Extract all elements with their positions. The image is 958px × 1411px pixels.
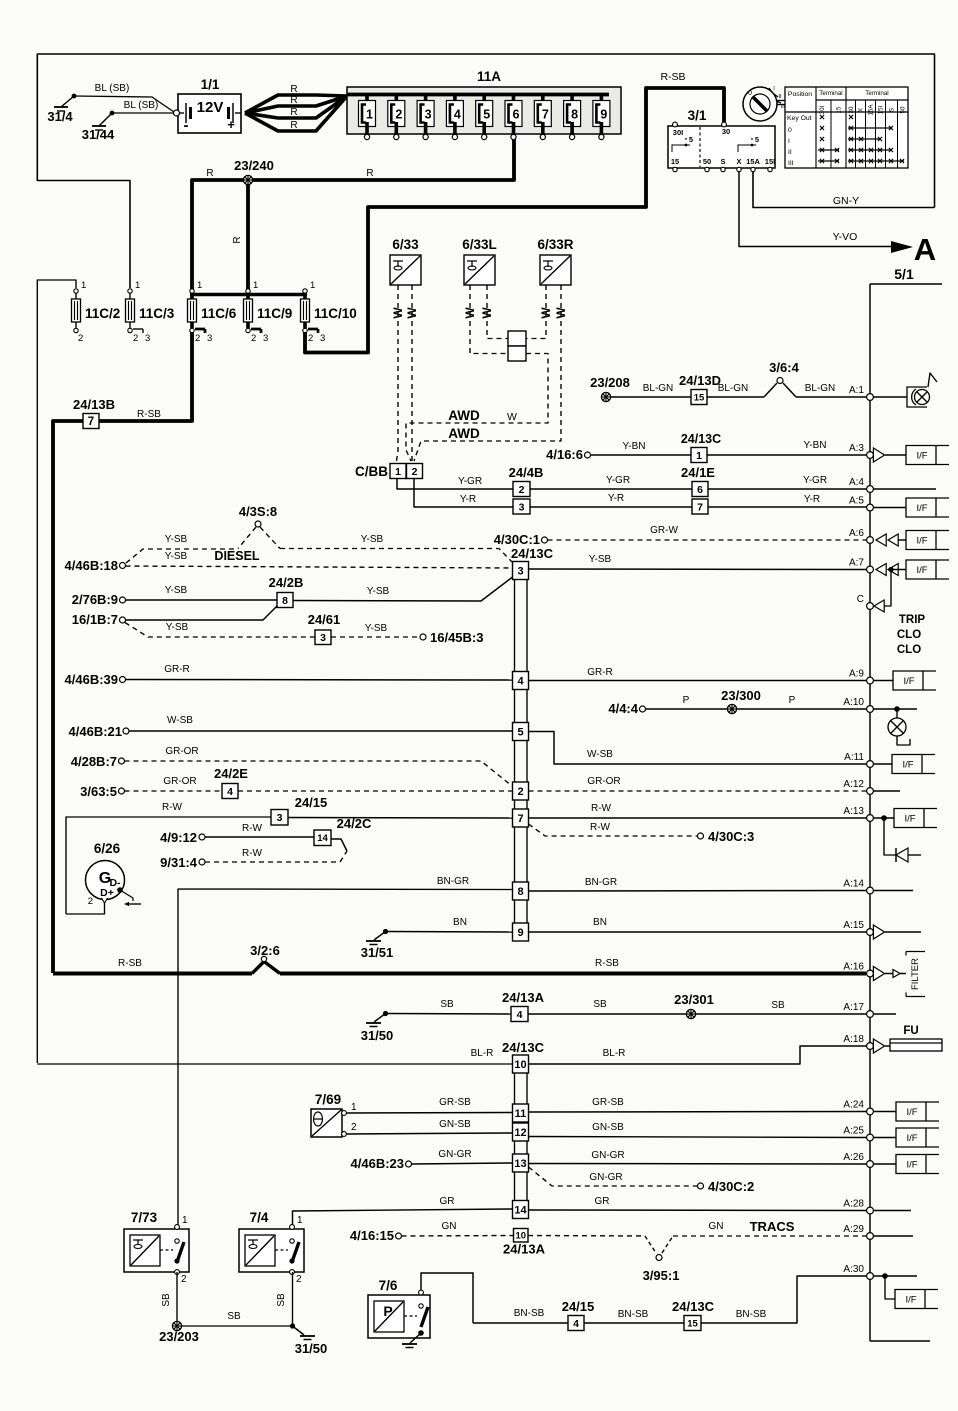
wire GN-GR to strip pin 13	[412, 1163, 513, 1164]
ECU pin C	[867, 603, 874, 610]
svg-text:7: 7	[542, 108, 549, 122]
wire A:7 to C	[884, 572, 891, 606]
svg-text:1: 1	[253, 280, 258, 291]
wire GR-W dashed to A:6	[548, 539, 867, 541]
svg-text:8: 8	[571, 108, 578, 122]
ECU pin A:11	[867, 761, 874, 768]
svg-text:R-W: R-W	[162, 802, 183, 813]
wire P to splice 23/300	[646, 708, 728, 710]
svg-text:AWD: AWD	[448, 408, 480, 423]
wire Y-VO from 3/1 pin X to arrow A	[739, 172, 891, 247]
strip 24/13C pin 13	[513, 1154, 529, 1172]
svg-text:9: 9	[517, 927, 523, 939]
wire W-SB to strip pin 5	[129, 730, 512, 732]
fuse 11C/3	[128, 289, 132, 293]
svg-text:5: 5	[483, 108, 490, 122]
svg-text:24/2C: 24/2C	[337, 816, 372, 831]
lamp at A:1	[873, 396, 907, 398]
svg-text:15I: 15I	[765, 157, 775, 166]
connector 24/1E pin 7	[692, 499, 708, 514]
svg-text:X: X	[736, 157, 741, 166]
svg-text:24/13C: 24/13C	[502, 1040, 545, 1055]
svg-text:BL (SB): BL (SB)	[95, 83, 130, 94]
sensor 6/33L	[464, 255, 495, 285]
svg-text:31/4: 31/4	[47, 109, 73, 124]
wire R-SB left segment and down	[53, 421, 83, 973]
svg-text:W: W	[405, 307, 419, 319]
flag on lamp	[928, 373, 937, 387]
svg-text:BN-SB: BN-SB	[514, 1308, 545, 1319]
wire A:30 with branch to interface	[873, 1275, 917, 1277]
wire BL-GN to A:1	[796, 396, 867, 398]
wire stub A:17	[873, 1013, 896, 1015]
svg-text:5: 5	[689, 135, 693, 144]
svg-text:31/50: 31/50	[295, 1341, 328, 1356]
svg-text:III: III	[788, 160, 794, 167]
inline connector 3/95:1	[645, 1236, 656, 1253]
svg-text:R-W: R-W	[590, 822, 611, 833]
svg-text:1: 1	[366, 108, 373, 122]
wire 6/33 pin b (dashed) to C/BB pin 2	[411, 285, 413, 463]
svg-text:11A: 11A	[477, 69, 501, 84]
svg-text:1: 1	[351, 1102, 357, 1113]
svg-text:R-SB: R-SB	[595, 958, 619, 969]
svg-text:3/95:1: 3/95:1	[643, 1268, 680, 1283]
svg-text:A:6: A:6	[849, 528, 864, 539]
ground 31/50 (bottom)	[293, 1326, 305, 1335]
svg-text:10: 10	[515, 1231, 526, 1242]
svg-text:A:4: A:4	[849, 477, 864, 488]
svg-text:W: W	[539, 307, 553, 319]
wire GN dashed to 3/95:1	[528, 1235, 645, 1238]
wire GR-OR dashed to strip pin 2	[125, 761, 513, 786]
svg-text:2: 2	[519, 484, 525, 496]
terminal 4/30C:3	[698, 833, 704, 839]
svg-text:SB: SB	[440, 999, 454, 1010]
ECU pin A:14	[867, 887, 874, 894]
svg-text:3: 3	[207, 333, 212, 344]
wire GN dashed to 24/13A pin 10	[402, 1235, 514, 1238]
svg-text:W: W	[554, 307, 568, 319]
wire R-SB trunk to A:16 with 3/2:6 break	[53, 971, 252, 975]
svg-text:3: 3	[277, 812, 283, 824]
svg-text:8: 8	[282, 595, 288, 607]
svg-text:1/1: 1/1	[201, 77, 220, 92]
svg-text:4/30C:1: 4/30C:1	[494, 532, 540, 547]
wire Y-BN to 24/13C pin 1	[591, 454, 692, 456]
key to table link	[777, 100, 785, 102]
wire R-W dashed from pin 7 to 4/30C:3	[529, 824, 698, 836]
svg-text:15: 15	[671, 157, 679, 166]
svg-text:SB: SB	[593, 999, 607, 1010]
svg-text:R-SB: R-SB	[660, 71, 685, 83]
svg-text:24/2E: 24/2E	[214, 766, 248, 781]
fuse 11A #1	[365, 93, 369, 104]
wire SB to A:17	[696, 1013, 867, 1015]
fuse 11A #5	[482, 93, 486, 104]
svg-text:A:18: A:18	[843, 1034, 864, 1045]
svg-text:BN-SB: BN-SB	[618, 1309, 649, 1320]
svg-text:BL-R: BL-R	[603, 1048, 626, 1059]
svg-text:7/69: 7/69	[315, 1092, 341, 1107]
svg-text:+: +	[227, 117, 235, 132]
svg-text:I/F: I/F	[902, 760, 913, 771]
sensor 6/33	[390, 255, 421, 285]
svg-text:GR-R: GR-R	[164, 664, 190, 675]
svg-text:2: 2	[195, 333, 200, 344]
svg-text:TRACS: TRACS	[750, 1219, 795, 1234]
svg-text:GR-W: GR-W	[650, 525, 678, 536]
input arrows A:7	[876, 564, 886, 576]
splice 23/203	[172, 1321, 181, 1330]
svg-text:14: 14	[514, 1204, 527, 1216]
wire stub A:29	[873, 1235, 913, 1237]
svg-text:SB: SB	[161, 1293, 172, 1307]
svg-text:GR-OR: GR-OR	[163, 776, 196, 787]
svg-text:30: 30	[722, 127, 730, 136]
svg-text:C: C	[857, 594, 864, 605]
ECU pin A:17	[867, 1011, 874, 1018]
wire from 7/6 pin 1 to BN-SB row	[421, 1273, 473, 1323]
svg-text:BL (SB): BL (SB)	[124, 100, 159, 111]
wire GN dashed to A:29	[673, 1235, 867, 1237]
svg-text:16/1B:7: 16/1B:7	[72, 612, 118, 627]
wire Y-GR to A:4	[708, 488, 867, 490]
svg-text:11C/2: 11C/2	[85, 306, 120, 321]
wire Y-SB 16/1B:7 joins 24/2B	[126, 606, 278, 620]
svg-text:10: 10	[514, 1059, 526, 1071]
wire BL-GN to 24/13D	[611, 396, 691, 398]
svg-text:Y-GR: Y-GR	[803, 475, 827, 486]
svg-text:24/4B: 24/4B	[509, 465, 544, 480]
svg-text:Y-SB: Y-SB	[361, 534, 384, 545]
svg-text:15: 15	[687, 1318, 698, 1329]
svg-text:Y-VO: Y-VO	[833, 231, 858, 243]
svg-text:GN-Y: GN-Y	[833, 195, 859, 207]
svg-text:Y-SB: Y-SB	[166, 622, 189, 633]
wire Y-SB dashed to 24/61	[125, 623, 315, 638]
ignition switch 3/1	[668, 126, 775, 168]
svg-text:GR: GR	[595, 1196, 610, 1207]
interface box A:5	[873, 507, 906, 509]
svg-text:24/2B: 24/2B	[269, 575, 304, 590]
svg-text:R: R	[290, 107, 297, 118]
strip 24/13C pin 3	[513, 562, 529, 580]
svg-text:2: 2	[133, 333, 138, 344]
svg-text:W: W	[391, 307, 405, 319]
svg-text:A:7: A:7	[849, 558, 864, 569]
svg-text:24/13B: 24/13B	[73, 397, 115, 412]
connector 24/13B pin 7	[83, 414, 99, 429]
svg-text:DIESEL: DIESEL	[214, 549, 260, 563]
wire R from fuse 6 to splice 23/240	[192, 139, 514, 293]
strip 24/13C pin 2	[513, 782, 529, 800]
wire BL-R from left vertical to strip pin 10	[37, 1063, 512, 1065]
svg-text:R-W: R-W	[242, 848, 263, 859]
wire W-SB step to A:11	[529, 732, 867, 765]
buffer at A:15	[873, 925, 884, 939]
fuse 11A #9	[600, 93, 604, 104]
svg-text:11: 11	[515, 1108, 527, 1120]
strip 24/13C pin 4	[513, 672, 529, 690]
wire R-W generator loop to 24/15	[66, 817, 271, 914]
svg-text:4/30C:2: 4/30C:2	[708, 1179, 754, 1194]
svg-text:GN: GN	[709, 1221, 724, 1232]
svg-text:A:12: A:12	[843, 779, 864, 790]
svg-text:15A: 15A	[746, 157, 760, 166]
svg-text:A:24: A:24	[843, 1100, 864, 1111]
wire BN-GR to A:14	[529, 890, 867, 893]
wire R-W to 24/2C	[205, 836, 314, 838]
svg-text:3: 3	[320, 333, 325, 344]
interface box A:24	[873, 1111, 896, 1113]
interface box A:3	[906, 446, 949, 465]
wire Y-SB from 24/2B to strip pin 3	[293, 577, 513, 601]
svg-text:W: W	[507, 411, 517, 423]
svg-text:Y-GR: Y-GR	[606, 475, 630, 486]
wire GR-R to A:9	[529, 680, 867, 682]
svg-text:2: 2	[351, 1122, 357, 1133]
svg-text:A:15: A:15	[843, 920, 864, 931]
svg-text:2: 2	[78, 333, 83, 344]
svg-text:3: 3	[425, 108, 432, 122]
svg-text:Y-GR: Y-GR	[458, 476, 482, 487]
wire SB to 24/13A	[388, 1013, 511, 1016]
svg-text:FU: FU	[903, 1025, 918, 1037]
svg-text:4/46B:18: 4/46B:18	[65, 558, 118, 573]
svg-text:6: 6	[697, 484, 703, 496]
wire R-SB from 11C/10 to ignition switch 3/1 pin 30	[305, 88, 724, 353]
svg-text:GR-OR: GR-OR	[165, 746, 198, 757]
svg-text:4/46B:23: 4/46B:23	[351, 1156, 404, 1171]
svg-text:24/15: 24/15	[295, 795, 328, 810]
battery 1/1	[178, 94, 241, 133]
svg-text:0: 0	[748, 90, 752, 97]
svg-text:P: P	[789, 695, 796, 706]
svg-text:3: 3	[517, 565, 523, 577]
svg-text:50: 50	[900, 106, 907, 113]
svg-text:3: 3	[519, 501, 525, 513]
svg-text:R: R	[206, 168, 213, 179]
fuse 11C/9	[246, 289, 250, 293]
ECU pin A:15	[867, 929, 874, 936]
splice 23/240	[243, 175, 252, 184]
svg-text:1: 1	[135, 280, 140, 291]
wire stub A:12	[873, 790, 900, 792]
wire Y-SB dashed upper row	[126, 549, 238, 563]
FILTER block	[906, 952, 925, 997]
svg-text:A:16: A:16	[843, 962, 864, 973]
wire BL (SB) lower	[112, 112, 174, 114]
wire GN-SB to A:25	[529, 1137, 867, 1138]
ECU pin A:6	[867, 537, 874, 544]
svg-text:3/2:6: 3/2:6	[250, 943, 280, 958]
battery positive fan wires (R)	[245, 95, 347, 113]
svg-text:2: 2	[181, 1274, 187, 1285]
svg-text:A:25: A:25	[843, 1126, 864, 1137]
wire SB to splice 23/301	[528, 1013, 686, 1015]
ECU pin A:9	[867, 677, 874, 684]
svg-text:2: 2	[251, 333, 256, 344]
svg-text:BN-GR: BN-GR	[585, 877, 617, 888]
svg-text:24/13C: 24/13C	[681, 432, 721, 446]
wire AWD upper (connector lower cell to C/BB)	[406, 354, 548, 462]
svg-text:R-SB: R-SB	[118, 958, 142, 969]
svg-text:Terminal: Terminal	[819, 90, 842, 97]
svg-text:9/31:4: 9/31:4	[160, 855, 198, 870]
svg-text:BL-GN: BL-GN	[643, 383, 674, 394]
svg-text:14: 14	[317, 833, 328, 844]
strip 24/13C pin 10	[513, 1055, 529, 1073]
ECU pin A:18	[867, 1043, 874, 1050]
ground 31/51	[383, 929, 388, 934]
svg-text:BL-GN: BL-GN	[718, 383, 749, 394]
svg-text:Y-SB: Y-SB	[165, 585, 188, 596]
strip 24/13C pin 11	[513, 1104, 529, 1122]
wire BL-GN mid	[707, 396, 764, 398]
strip 24/13C pin 12	[513, 1123, 529, 1141]
ECU pin A:24	[867, 1108, 874, 1115]
svg-text:1: 1	[395, 466, 401, 478]
svg-text:3: 3	[145, 333, 150, 344]
svg-text:Y-SB: Y-SB	[367, 586, 390, 597]
wire Y-SB dashed to 16/45B:3	[331, 636, 419, 638]
ECU pin A:4	[867, 486, 874, 493]
wire BN-SB mid	[584, 1322, 684, 1324]
svg-text:1: 1	[197, 280, 202, 291]
svg-text:23/203: 23/203	[159, 1329, 199, 1344]
svg-text:A:11: A:11	[844, 752, 864, 763]
svg-text:16/45B:3: 16/45B:3	[430, 630, 483, 645]
svg-text:4: 4	[517, 1009, 523, 1021]
svg-text:11C/9: 11C/9	[257, 306, 292, 321]
fuse 11A #6	[512, 93, 516, 104]
svg-text:TRIP: TRIP	[899, 614, 926, 626]
wire GR to A:28	[529, 1209, 867, 1212]
svg-text:W-SB: W-SB	[587, 749, 613, 760]
wire SB from 7/4 pin 2 down	[292, 1272, 294, 1326]
svg-text:4/4:4: 4/4:4	[608, 701, 638, 716]
svg-text:8: 8	[517, 886, 523, 898]
svg-text:2: 2	[412, 466, 418, 478]
interface box A:13	[881, 815, 887, 821]
svg-text:24/13A: 24/13A	[502, 990, 545, 1005]
svg-text:GR-OR: GR-OR	[587, 776, 620, 787]
svg-text:3/63:5: 3/63:5	[80, 784, 117, 799]
svg-text:Y-BN: Y-BN	[804, 440, 827, 451]
wire 6/33L pin b to inline connector	[487, 285, 508, 339]
svg-text:Y-SB: Y-SB	[365, 623, 388, 634]
svg-text:GN-GR: GN-GR	[438, 1149, 471, 1160]
svg-text:1: 1	[310, 280, 315, 291]
svg-text:50: 50	[703, 157, 711, 166]
svg-text:1: 1	[297, 1215, 303, 1226]
svg-text:W-SB: W-SB	[167, 715, 193, 726]
svg-text:I/F: I/F	[905, 1295, 916, 1306]
svg-text:Y-R: Y-R	[608, 493, 624, 504]
wire GR-OR dashed to strip pin 2b	[238, 790, 512, 792]
svg-text:4: 4	[573, 1318, 579, 1330]
svg-text:S: S	[889, 108, 896, 112]
ECU pin A:16	[867, 970, 874, 977]
svg-text:15: 15	[836, 106, 843, 113]
wire GR-SB to A:24	[529, 1111, 867, 1114]
strip 24/13C pin 5	[513, 723, 529, 741]
svg-text:23/301: 23/301	[674, 992, 714, 1007]
wire Y-GR mid	[530, 488, 692, 490]
svg-text:BN: BN	[593, 917, 607, 928]
fuse box bus bar	[347, 93, 609, 97]
interface box A:11	[873, 763, 892, 765]
ECU pin A:5	[867, 504, 874, 511]
svg-text:R-SB: R-SB	[137, 409, 161, 420]
connector 24/4B pin 3	[513, 499, 530, 514]
svg-text:0: 0	[788, 127, 792, 134]
svg-text:Key Out: Key Out	[787, 115, 812, 122]
svg-text:11C/10: 11C/10	[314, 306, 357, 321]
wire GN-GR to A:26	[529, 1163, 867, 1166]
svg-text:4/46B:21: 4/46B:21	[69, 724, 122, 739]
svg-text:X: X	[858, 108, 865, 112]
svg-text:P: P	[683, 695, 690, 706]
wire R-W dashed from 9/31:4	[205, 851, 347, 862]
svg-text:GN-SB: GN-SB	[439, 1119, 471, 1130]
wire hook from 24/2C	[331, 839, 347, 851]
svg-text:6/33: 6/33	[392, 237, 419, 252]
fuse 11C/6	[190, 289, 194, 293]
ignition key symbol	[743, 87, 777, 121]
svg-text:A:29: A:29	[843, 1224, 864, 1235]
wire GN-GR dashed to 4/30C:2	[529, 1167, 698, 1186]
svg-text:S: S	[720, 157, 725, 166]
svg-text:12V: 12V	[197, 99, 224, 116]
input arrows A:6	[876, 534, 886, 546]
svg-text:4: 4	[227, 786, 233, 798]
ground 31/50	[383, 1011, 388, 1016]
svg-text:5: 5	[517, 726, 523, 738]
svg-text:Y-R: Y-R	[804, 494, 820, 505]
svg-text:W: W	[480, 307, 494, 319]
wire 6/33R pin a to inline connector upper	[526, 285, 546, 339]
ground 31/4	[54, 106, 68, 108]
svg-text:6/33L: 6/33L	[462, 237, 497, 252]
svg-text:A:5: A:5	[849, 496, 864, 507]
wire A:4 into ECU	[873, 488, 936, 490]
wire BN-SB to 24/15	[473, 1322, 568, 1324]
wire Y-R mid	[530, 506, 692, 508]
svg-text:A:1: A:1	[849, 385, 864, 396]
wire BL (SB) upper	[74, 96, 174, 112]
ECU pin A:25	[867, 1134, 874, 1141]
svg-text:4/16:6: 4/16:6	[546, 447, 583, 462]
svg-text:15: 15	[694, 392, 705, 403]
wire GR-R to strip pin 4	[126, 679, 513, 682]
svg-text:A:26: A:26	[843, 1152, 864, 1163]
wire R-SB from 11C/6 down to 24/13B	[99, 332, 192, 421]
ECU pin A:28	[867, 1207, 874, 1214]
svg-text:GN-GR: GN-GR	[589, 1172, 622, 1183]
svg-text:7/73: 7/73	[131, 1210, 158, 1225]
svg-text:A:30: A:30	[843, 1264, 864, 1275]
buffer at A:3	[873, 448, 884, 462]
svg-text:I/F: I/F	[906, 1160, 917, 1171]
ground below 7/6	[410, 1333, 421, 1343]
wire Y-SB DIESEL dashed row	[126, 566, 513, 568]
svg-text:I/F: I/F	[916, 565, 927, 576]
svg-text:I/F: I/F	[906, 1107, 917, 1118]
terminal 16/45B:3	[420, 634, 426, 640]
svg-text:24/13A: 24/13A	[503, 1242, 546, 1257]
